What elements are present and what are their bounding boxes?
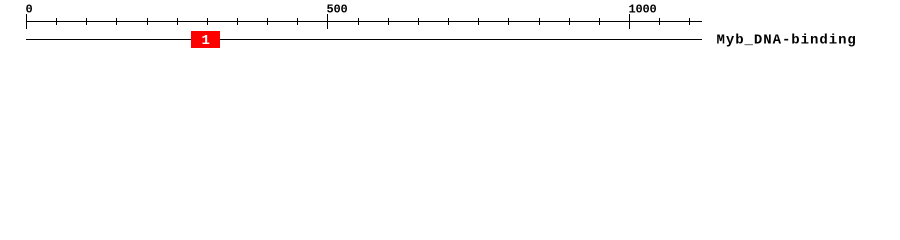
svg-text:Myb_DNA-binding: Myb_DNA-binding: [717, 33, 857, 49]
major tick 1000: [629, 14, 630, 29]
major tick 500: [327, 14, 328, 29]
svg-text:0: 0: [26, 2, 33, 16]
svg-text:1000: 1000: [629, 2, 657, 16]
minor tick 350: [237, 18, 238, 25]
minor tick 1100: [689, 18, 690, 25]
svg-text:500: 500: [327, 2, 348, 16]
minor tick 650: [418, 18, 419, 25]
minor tick 250: [177, 18, 178, 25]
protein backbone line: [26, 39, 702, 40]
domain box 1 (red): [191, 31, 220, 48]
minor tick 700: [448, 18, 449, 25]
minor tick 800: [508, 18, 509, 25]
minor tick 300: [207, 18, 208, 25]
minor tick 200: [147, 18, 148, 25]
minor tick 400: [267, 18, 268, 25]
minor tick 50: [56, 18, 57, 25]
minor tick 750: [478, 18, 479, 25]
minor tick 600: [388, 18, 389, 25]
minor tick 100: [86, 18, 87, 25]
minor tick 450: [297, 18, 298, 25]
minor tick 900: [569, 18, 570, 25]
minor tick 550: [358, 18, 359, 25]
minor tick 150: [116, 18, 117, 25]
major tick 0: [26, 14, 27, 29]
ruler scale line: [26, 21, 702, 22]
svg-text:1: 1: [202, 33, 210, 49]
minor tick 850: [539, 18, 540, 25]
minor tick 1050: [659, 18, 660, 25]
minor tick 950: [599, 18, 600, 25]
